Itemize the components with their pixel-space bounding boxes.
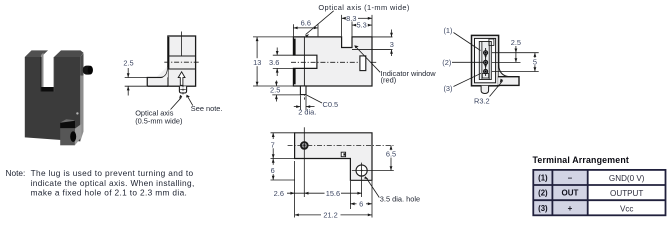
bottom view centerline: [288, 144, 394, 146]
svg-text:(2): (2): [442, 58, 451, 67]
side view aperture thick edge: [167, 37, 169, 69]
sensor 3D side pin hole: [76, 112, 78, 114]
side view window lines: [168, 55, 196, 57]
sensor 3D connector block: [60, 128, 75, 145]
connector inner rect: [475, 38, 496, 82]
sensor 3D connector hole: [70, 131, 76, 142]
sensor 3D right side face: [80, 53, 83, 141]
dim 6 left: [271, 159, 295, 181]
svg-text:2 dia.: 2 dia.: [298, 107, 316, 116]
dim 2.5 bottom: [272, 81, 301, 102]
front view top ext line: [372, 36, 393, 38]
svg-text:OUTPUT: OUTPUT: [610, 189, 643, 198]
svg-text:(0.5-mm wide): (0.5-mm wide): [135, 116, 182, 125]
svg-text:–: –: [568, 173, 573, 182]
dim 6 bottom: [350, 181, 372, 218]
table grid: [533, 170, 665, 215]
sensor 3D slot edge lines: [40, 57, 42, 92]
connector arm: [499, 77, 519, 86]
dim 2 dia: [294, 96, 315, 111]
sensor 3D bottom-right side wedge: [75, 124, 82, 145]
front view body outline: [293, 37, 372, 86]
bottom view lug vline: [303, 127, 305, 197]
sensor 3D lug cylinder: [83, 66, 93, 75]
svg-text:6.5: 6.5: [386, 150, 396, 159]
svg-text:2.5: 2.5: [270, 86, 280, 95]
svg-text:6: 6: [359, 199, 363, 208]
svg-text:The lug is used to prevent tur: The lug is used to prevent turning and t…: [31, 168, 194, 178]
svg-text:2.5: 2.5: [511, 38, 521, 47]
svg-text:3.6: 3.6: [269, 58, 279, 67]
sensor 3D right prong top face: [54, 50, 84, 57]
sensor 3D bottom step notch: [60, 121, 75, 128]
front view indicator window: [360, 56, 366, 71]
svg-text:6.6: 6.6: [301, 19, 311, 28]
svg-text:OUT: OUT: [562, 189, 579, 198]
side view arm with fillet: [147, 66, 168, 86]
svg-text:R3.2: R3.2: [474, 97, 490, 106]
svg-text:See note.: See note.: [191, 104, 223, 113]
dim 6.6: [293, 24, 318, 36]
side view top center line: [181, 32, 183, 57]
dim 6.5: [390, 145, 392, 170]
connector pin 2: [484, 60, 488, 64]
svg-text:3: 3: [390, 40, 394, 49]
svg-text:8.3: 8.3: [346, 14, 356, 23]
svg-text:2.5: 2.5: [123, 58, 133, 67]
connector fillet R3.2: [499, 65, 510, 77]
svg-text:7: 7: [271, 140, 275, 149]
sensor 3D slot inner wall: [41, 53, 44, 92]
dim 2.5 side: [125, 68, 148, 96]
sensor 3D front face: [25, 57, 81, 141]
front view lug: [300, 86, 306, 95]
svg-text:make a fixed hole of 2.1 to 2.: make a fixed hole of 2.1 to 2.3 mm dia.: [31, 188, 188, 198]
svg-text:3.5 dia. hole: 3.5 dia. hole: [380, 195, 420, 204]
svg-text:(1): (1): [443, 26, 452, 35]
side view body: [168, 36, 196, 86]
sensor 3D bottom step wedge: [60, 119, 75, 123]
bottom view small square: [341, 152, 345, 157]
bottom view L body: [295, 133, 372, 181]
front view aperture bars: [293, 39, 296, 56]
connector pin 3: [484, 69, 488, 73]
svg-text:(2): (2): [538, 189, 548, 198]
svg-text:13: 13: [253, 58, 261, 67]
svg-text:(3): (3): [443, 84, 452, 93]
bottom view lug circle: [301, 142, 308, 149]
front view centerline: [291, 61, 360, 63]
dim 3.6: [273, 48, 294, 77]
pin ext lines: [492, 53, 539, 72]
svg-text:2.6: 2.6: [274, 189, 284, 198]
svg-text:Vcc: Vcc: [620, 204, 634, 213]
svg-text:C0.5: C0.5: [323, 100, 339, 109]
connector lug stub rear: [481, 86, 489, 94]
front view step line: [352, 49, 393, 51]
dim 2.6 and 15.6: [287, 192, 362, 194]
dim 7: [271, 133, 295, 159]
connector channel: [479, 42, 491, 80]
dim 8.3: [342, 15, 372, 37]
dim 13: [253, 37, 293, 86]
table cell backgrounds: [534, 171, 588, 215]
bottom view 3.5 hole: [356, 165, 367, 176]
side view up arrow: [178, 72, 185, 86]
dim 2.5 conn: [515, 46, 517, 62]
svg-text:(1): (1): [538, 173, 548, 182]
side view lug stub: [179, 86, 186, 93]
svg-text:Optical axis (1-mm wide): Optical axis (1-mm wide): [318, 3, 409, 12]
dim 5 conn: [534, 53, 536, 72]
svg-text:5.3: 5.3: [356, 21, 366, 30]
svg-text:(red): (red): [381, 76, 397, 85]
dim 21.2: [295, 161, 372, 218]
svg-text:(3): (3): [538, 204, 548, 213]
connector pin 1: [484, 51, 488, 55]
svg-text:Terminal Arrangement: Terminal Arrangement: [533, 155, 629, 165]
connector outer body: [472, 35, 499, 85]
svg-text:5: 5: [533, 57, 537, 66]
front view optical axis line: [303, 37, 305, 86]
sensor 3D left prong top face: [25, 50, 48, 57]
dim 3: [391, 30, 393, 57]
svg-text:GND(0 V): GND(0 V): [609, 174, 645, 183]
svg-text:15.6: 15.6: [326, 189, 340, 198]
svg-text:6: 6: [271, 166, 275, 175]
svg-text:21.2: 21.2: [323, 211, 337, 220]
connector pin column line: [485, 48, 487, 76]
svg-text:Note:: Note:: [6, 168, 26, 178]
svg-text:indicate the optical axis. Whe: indicate the optical axis. When installi…: [31, 178, 195, 188]
svg-text:+: +: [568, 204, 573, 213]
sensor 3D slot bottom shadow: [41, 87, 54, 92]
label C0.5: [307, 95, 323, 103]
side view centerline: [164, 61, 199, 63]
dim 5.3: [352, 22, 372, 37]
